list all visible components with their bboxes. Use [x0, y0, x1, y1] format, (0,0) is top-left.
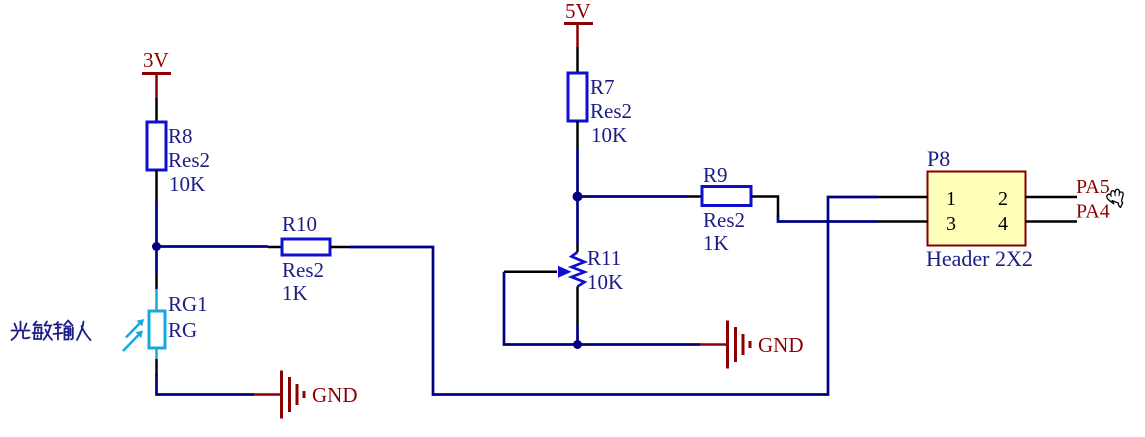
svg-text:2: 2	[998, 188, 1008, 210]
junction node B	[573, 192, 583, 202]
resistor R8	[147, 122, 210, 196]
wire node A down to RG1	[155, 247, 158, 276]
svg-text:5V: 5V	[565, 0, 591, 23]
svg-text:Res2: Res2	[703, 208, 745, 232]
wire 3V to R8	[155, 98, 158, 122]
header P8	[926, 146, 1033, 271]
power port 3V	[142, 48, 171, 98]
svg-text:Res2: Res2	[168, 148, 210, 172]
svg-text:R8: R8	[168, 124, 193, 148]
svg-text:10K: 10K	[169, 172, 205, 196]
wire R10 to header pin1 (long path)	[330, 246, 350, 249]
svg-text:10K: 10K	[587, 270, 623, 294]
wire node B down to R11	[576, 197, 579, 244]
svg-text:R11: R11	[587, 246, 621, 270]
junction node A	[152, 242, 161, 251]
potentiometer R11	[504, 246, 623, 294]
resistor R7	[568, 73, 632, 147]
svg-text:1K: 1K	[282, 281, 308, 305]
wire R8 to node A	[155, 170, 158, 200]
ground GND (left)	[254, 371, 358, 419]
photoresistor RG1	[123, 292, 208, 359]
svg-text:GND: GND	[758, 333, 804, 357]
wire node B to R9	[578, 195, 689, 198]
svg-text:1K: 1K	[703, 231, 729, 255]
svg-text:PA5: PA5	[1076, 176, 1110, 198]
wire R9 to header pin3	[751, 197, 778, 218]
敏	[33, 322, 44, 340]
power port 5V	[564, 0, 593, 47]
svg-text:GND: GND	[312, 383, 358, 407]
svg-text:PA4: PA4	[1076, 201, 1110, 223]
svg-text:1: 1	[946, 188, 956, 210]
svg-text:R7: R7	[590, 75, 615, 99]
wire 5V to R7	[576, 47, 579, 73]
label 光敏输入 (hand-drawn strokes)	[12, 321, 91, 341]
svg-text:R10: R10	[282, 212, 317, 236]
resistor R10	[282, 212, 330, 305]
pin 3	[878, 220, 928, 223]
pin 2	[1026, 196, 1078, 199]
pin 4	[1026, 220, 1078, 223]
svg-text:RG: RG	[168, 318, 197, 342]
svg-text:R9: R9	[703, 163, 728, 187]
svg-text:4: 4	[998, 213, 1008, 235]
resistor R9	[702, 163, 751, 255]
wire node A to R10	[157, 245, 269, 248]
svg-text:RG1: RG1	[168, 292, 208, 316]
svg-text:Res2: Res2	[590, 99, 632, 123]
svg-text:Res2: Res2	[282, 258, 324, 282]
svg-text:Header 2X2: Header 2X2	[926, 246, 1033, 271]
ground GND (middle)	[700, 321, 804, 369]
svg-text:10K: 10K	[591, 123, 627, 147]
svg-text:P8: P8	[927, 146, 950, 171]
wire wiper loop	[504, 272, 578, 345]
pin 1	[878, 196, 928, 199]
入	[77, 322, 91, 341]
光	[12, 322, 30, 341]
junction dot R11 bottom	[573, 340, 582, 349]
svg-text:3: 3	[946, 213, 956, 235]
wire RG1 to GND (left)	[155, 359, 158, 376]
输	[54, 322, 63, 340]
svg-text:3V: 3V	[143, 48, 169, 72]
mouse cursor (hand)	[1107, 189, 1123, 207]
wire R7 to node B	[576, 121, 579, 150]
wire junction to GND (middle)	[578, 343, 701, 346]
wire R11 bottom to junction	[576, 287, 579, 326]
